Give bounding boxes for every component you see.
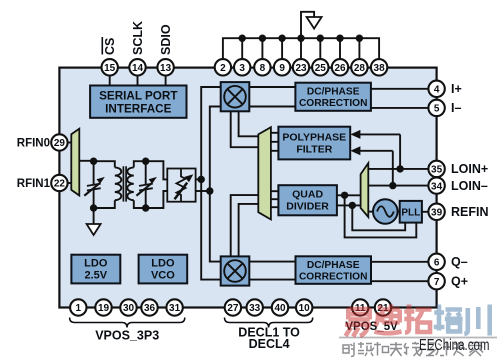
wire secondary to R box bottom (146, 191, 168, 208)
wire RF line A (201, 87, 221, 280)
wire DC/PHASE1 to pins 4,5 (371, 89, 437, 108)
wire RFIN1 to mux (59, 182, 71, 184)
block QUAD DIVIDER (278, 185, 337, 215)
svg-text:34: 34 (431, 181, 443, 192)
wire LOIN- line (368, 185, 436, 187)
pin 28 (351, 59, 367, 75)
brace DECL1 TO DECL4 (225, 318, 313, 328)
svg-text:39: 39 (431, 208, 443, 219)
svg-text:33: 33 (249, 303, 261, 314)
wire secondary to R box top (146, 161, 168, 179)
svg-text:2.5V: 2.5V (84, 270, 107, 282)
wire PLL to REFIN pin 39 (422, 211, 437, 213)
pin 10 (296, 299, 312, 315)
svg-text:FILTER: FILTER (296, 144, 332, 156)
pin 11 (352, 299, 368, 315)
transformer core (123, 166, 126, 201)
svg-text:INTERFACE: INTERFACE (105, 103, 171, 116)
pin 5 (428, 100, 444, 116)
svg-text:QUAD: QUAD (292, 189, 323, 201)
wire serial port stubs pins 15,14,13 (110, 67, 166, 86)
wire PLL feedback inner (352, 205, 405, 230)
junction dots LOIN lines (389, 165, 404, 189)
block DC/PHASE CORRECTION Q (296, 256, 372, 284)
svg-text:30: 30 (123, 303, 135, 314)
wire VCO to PLL (397, 211, 399, 213)
pin 27 (225, 299, 241, 315)
svg-text:DC/PHASE: DC/PHASE (307, 87, 360, 98)
pin 33 (247, 299, 263, 315)
mixer U1 (I) (221, 82, 250, 111)
capacitor C2 arrow (136, 177, 157, 197)
pin 35 (428, 161, 444, 177)
svg-text:DC/PHASE: DC/PHASE (307, 260, 360, 271)
pin 21 (375, 299, 391, 315)
wire RF line B (210, 107, 221, 262)
svg-text:VCO: VCO (151, 270, 175, 282)
mux M2 LO source select (361, 163, 369, 217)
pin 2 (215, 59, 231, 75)
wire mux3 to quad divider (271, 191, 279, 207)
ground symbol tank (87, 224, 101, 235)
svg-text:6: 6 (434, 258, 440, 269)
junction dots tank nodes (90, 158, 149, 212)
junction dots RF lines (198, 176, 214, 195)
svg-text:27: 27 (227, 303, 239, 314)
resistor box tunable (167, 169, 195, 202)
svg-text:Q+: Q+ (451, 274, 468, 288)
watermark small grey tagline (343, 342, 483, 357)
svg-text:15: 15 (104, 63, 116, 74)
pin 22 (51, 175, 67, 191)
ground stub tank (93, 208, 95, 224)
wire PLL feedback outer (345, 195, 417, 237)
pin 23 (293, 59, 309, 75)
svg-text:CS: CS (103, 38, 117, 55)
watermark big characters (345, 305, 490, 337)
pin 8 (254, 59, 270, 75)
svg-text:38: 38 (374, 63, 386, 74)
wire R box to node A line (196, 178, 202, 180)
pin 31 (166, 299, 182, 315)
svg-text:I+: I+ (451, 82, 462, 96)
svg-text:RFIN1: RFIN1 (17, 178, 51, 190)
wire quad divider to mux2 (337, 195, 361, 205)
svg-text:22: 22 (54, 179, 66, 190)
svg-text:5: 5 (434, 104, 440, 115)
wire bus stubs pins 3,8,9,23,25,26,28 (242, 38, 359, 60)
pin 29 (51, 134, 67, 150)
svg-text:POLYPHASE: POLYPHASE (282, 132, 346, 144)
svg-text:13: 13 (160, 63, 172, 74)
svg-text:29: 29 (54, 138, 66, 149)
svg-text:REFIN: REFIN (451, 205, 489, 219)
pin 9 (274, 59, 290, 75)
svg-text:4: 4 (434, 85, 440, 96)
svg-text:8: 8 (260, 63, 266, 74)
wire tank top rail secondary (134, 161, 146, 167)
svg-text:SERIAL PORT: SERIAL PORT (99, 90, 178, 103)
block POLYPHASE FILTER (278, 127, 350, 160)
svg-text:2: 2 (220, 63, 226, 74)
wire mixer1 LO inputs (231, 111, 259, 147)
svg-text:LDO: LDO (151, 258, 175, 270)
svg-text:DECL4: DECL4 (249, 337, 290, 351)
pin 3 (234, 59, 250, 75)
pin 14 (129, 59, 145, 75)
pin 30 (120, 299, 136, 315)
wire mux output to tank node A (79, 160, 93, 162)
wire RFIN0 to mux (59, 142, 71, 144)
pin 19 (95, 299, 111, 315)
svg-text:26: 26 (334, 63, 346, 74)
svg-text:35: 35 (431, 165, 443, 176)
svg-text:VPOS_3P3: VPOS_3P3 (95, 329, 159, 343)
svg-text:23: 23 (295, 63, 307, 74)
pin 4 (428, 81, 444, 97)
svg-text:LOIN–: LOIN– (451, 179, 488, 193)
inductor secondary winding (127, 167, 134, 200)
inductor primary winding (115, 167, 122, 200)
svg-text:I–: I– (451, 101, 461, 115)
svg-text:36: 36 (144, 303, 156, 314)
block PLL (400, 201, 422, 223)
wire top decoupling bus (223, 38, 379, 60)
resistor arrow (174, 174, 194, 200)
block LDO 2.5V (71, 255, 120, 284)
svg-text:DIVIDER: DIVIDER (286, 201, 329, 213)
svg-text:7: 7 (434, 277, 440, 288)
svg-text:SCLK: SCLK (131, 21, 145, 55)
svg-text:40: 40 (274, 303, 286, 314)
ground top bus (301, 12, 314, 38)
wire polyphase feed 2 (358, 151, 393, 186)
pin 1 (70, 299, 86, 315)
wire tank top rail primary (94, 161, 115, 167)
svg-text:25: 25 (315, 63, 327, 74)
capacitor C1 arrow (84, 177, 105, 197)
pin 15 (102, 59, 118, 75)
svg-text:31: 31 (169, 303, 181, 314)
svg-text:14: 14 (132, 63, 144, 74)
svg-text:EEChina.com: EEChina.com (419, 337, 490, 354)
pin 34 (428, 177, 444, 193)
oscillator VCO (373, 199, 398, 224)
pin 13 (157, 59, 173, 75)
svg-text:28: 28 (354, 63, 366, 74)
wire LOIN+ line (368, 168, 436, 170)
pin 39 (428, 204, 444, 220)
capacitor C1 variable shunt (93, 161, 95, 208)
chip body AD chip outline (59, 68, 436, 308)
wire mixer2 outputs to DC/PHASE2 (249, 262, 295, 280)
svg-text:19: 19 (98, 303, 110, 314)
block SERIAL PORT INTERFACE (90, 86, 186, 118)
polyphase input arrowheads (350, 130, 360, 139)
pin 36 (141, 299, 157, 315)
junction dots quad divider outputs (341, 192, 356, 209)
right side labels (451, 82, 489, 288)
svg-text:CORRECTION: CORRECTION (299, 271, 367, 282)
svg-text:PLL: PLL (401, 207, 420, 218)
mux M1 RF input select (71, 129, 79, 196)
wire R box to node B line (196, 190, 210, 192)
watermark rule (339, 337, 497, 339)
wire mux3 to polyphase filter (271, 133, 279, 151)
pin 25 (312, 59, 328, 75)
mixer U2 (Q) (221, 256, 250, 285)
brace VPOS_3P3 (70, 318, 185, 328)
capacitor C2 variable shunt (145, 161, 147, 208)
ground symbol top (307, 17, 322, 29)
svg-text:SDIO: SDIO (159, 24, 173, 55)
wire mixer2 LO inputs (231, 195, 259, 256)
wire mux2 to VCO (368, 211, 373, 213)
block LDO VCO (139, 255, 188, 284)
pin 38 (371, 59, 387, 75)
block DC/PHASE CORRECTION I (295, 83, 371, 111)
svg-text:LOIN+: LOIN+ (451, 162, 488, 176)
wire DC/PHASE2 to pins 6,7 (369, 262, 436, 281)
junction dots top bus (239, 35, 364, 42)
label CS (rotated) (102, 37, 117, 55)
svg-text:Q–: Q– (451, 255, 468, 269)
wire tank bottom rail secondary (134, 200, 146, 208)
pin 7 (428, 273, 444, 289)
pin 6 (428, 254, 444, 270)
wire tank bottom rail primary (94, 200, 115, 208)
svg-text:10: 10 (299, 303, 311, 314)
svg-text:1: 1 (76, 303, 82, 314)
pin 26 (332, 59, 348, 75)
wire mixer1 outputs to DC/PHASE (249, 87, 295, 107)
mux M3 LO distribution (258, 127, 271, 219)
resistor element zigzag (177, 169, 186, 202)
svg-text:RFIN0: RFIN0 (17, 138, 50, 150)
wire polyphase feed 1 (358, 134, 400, 169)
svg-text:LDO: LDO (84, 258, 108, 270)
svg-text:9: 9 (279, 63, 285, 74)
svg-text:3: 3 (239, 63, 245, 74)
pin 40 (272, 299, 288, 315)
svg-text:CORRECTION: CORRECTION (299, 98, 367, 109)
